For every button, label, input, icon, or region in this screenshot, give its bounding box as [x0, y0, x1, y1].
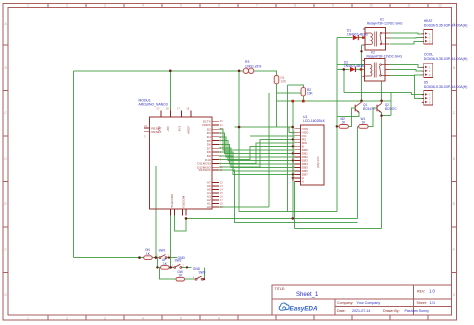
title block texts: [275, 287, 436, 313]
wire D11 to LCD RW: [219, 143, 295, 164]
svg-text:B: B: [453, 66, 456, 70]
svg-text:10K: 10K: [307, 92, 314, 96]
wire analog rail: [277, 100, 392, 102]
wire bottom return to Q2 emitter: [295, 228, 382, 230]
wire connector pin2 feed: [415, 75, 424, 99]
svg-text:AREF: AREF: [187, 126, 191, 134]
wire W1 left vertical: [357, 126, 358, 218]
svg-text:14: 14: [220, 188, 223, 192]
svg-text:8: 8: [294, 4, 296, 8]
svg-text:Company:: Company:: [337, 301, 353, 305]
svg-text:TITLE:: TITLE:: [275, 287, 286, 291]
resistor M2: [339, 117, 348, 129]
wire D5 to LCD DB3: [219, 141, 295, 161]
svg-text:DG636-5.35-03P-14-00A(H): DG636-5.35-03P-14-00A(H): [424, 23, 468, 27]
wire D13 down branch: [219, 170, 357, 223]
wire R2 bottom to rail: [302, 96, 304, 101]
resistor R1: [274, 76, 287, 84]
svg-text:1: 1: [429, 65, 431, 69]
svg-text:1: 1: [27, 4, 29, 8]
wire D12 to LCD RS: [219, 139, 295, 167]
wire K2 coil bottom to Q2 collector: [381, 81, 383, 101]
svg-text:Drawn By:: Drawn By:: [383, 309, 400, 313]
wire +5V top trunk horizontal: [73, 70, 243, 72]
svg-text:17: 17: [220, 198, 223, 202]
wire D3 to LCD DB1: [219, 133, 295, 153]
lcd U1 LCD-1602BLK: [292, 115, 326, 185]
resistor R2: [301, 88, 314, 96]
svg-text:18: 18: [186, 107, 189, 111]
connector HEAT DG636: [422, 19, 468, 44]
relay K1 RelayHT3F-12VDC-SHG: [363, 17, 403, 50]
connector U5 DG636 power: [422, 80, 468, 105]
wire W1 to Q2 base: [368, 108, 377, 126]
svg-text:ARDUINO_NANO3: ARDUINO_NANO3: [139, 103, 168, 107]
svg-text:12: 12: [438, 4, 442, 8]
svg-text:2: 2: [204, 275, 206, 279]
relay K2 RelayHT3F-12VDC-SHG: [363, 51, 403, 81]
svg-text:6: 6: [218, 316, 220, 320]
ground net flag row3 shared: [190, 266, 192, 268]
wire K1 coil return down to Q1 collector: [362, 45, 366, 101]
svg-text:+5V: +5V: [166, 125, 170, 132]
svg-text:7: 7: [256, 4, 258, 8]
wire K1 contact to HEAT pin2: [390, 37, 422, 39]
svg-text:13: 13: [220, 184, 223, 188]
svg-text:G: G: [4, 293, 7, 297]
wire Q2 emitter return: [382, 92, 392, 115]
svg-text:5: 5: [180, 4, 182, 8]
svg-text:VIN: VIN: [157, 126, 161, 131]
svg-text:D: D: [4, 157, 7, 161]
svg-text:10KΩ ±5%: 10KΩ ±5%: [245, 64, 261, 68]
wire connector pin1 feed: [412, 92, 424, 94]
resistor UP: [161, 258, 170, 269]
svg-text:31: 31: [220, 123, 223, 127]
svg-text:18: 18: [220, 202, 223, 206]
svg-text:[M] LCD: [M] LCD: [316, 156, 320, 168]
resistor W1: [359, 117, 368, 129]
wire D1 cathode to K1 coil pin: [359, 37, 366, 39]
module MODU1 ARDUINO_NANO3: [139, 99, 224, 216]
wire R1 bottom drop: [276, 84, 278, 127]
wire D9 to LCD DB7: [219, 156, 295, 175]
svg-text:1: 1: [157, 254, 159, 258]
svg-text:1: 1: [172, 263, 174, 267]
svg-text:G&COM: G&COM: [182, 195, 186, 207]
resistor ON: [144, 248, 153, 259]
svg-text:1: 1: [27, 316, 29, 320]
svg-text:2: 2: [429, 69, 431, 73]
transistor Q2 BC547C: [377, 101, 398, 113]
wire D8 to LCD DB6: [219, 152, 295, 171]
svg-text:Your Company: Your Company: [357, 301, 381, 305]
wire VO sense horizontal: [277, 92, 301, 94]
svg-text:SW3: SW3: [199, 271, 206, 275]
svg-text:17: 17: [177, 107, 180, 111]
transistor Q1 BC547C: [355, 101, 376, 113]
wire M2 left vertical: [337, 125, 339, 127]
wire LCD column vertical: [292, 101, 294, 218]
svg-text:DG636-5.35-03P-14-00A(H): DG636-5.35-03P-14-00A(H): [424, 85, 468, 89]
svg-text:EasyEDA: EasyEDA: [290, 306, 318, 313]
svg-text:LCD-1602BLK: LCD-1602BLK: [303, 119, 326, 123]
wire thermistor junction drop: [238, 71, 240, 212]
svg-text:D: D: [453, 157, 456, 161]
svg-text:16: 16: [220, 195, 223, 199]
svg-text:2021-07-14: 2021-07-14: [352, 309, 370, 313]
svg-text:4: 4: [142, 316, 144, 320]
svg-text:1K: 1K: [362, 121, 367, 125]
wire SW1 feed vertical: [155, 166, 157, 258]
wire R2 side drop: [287, 85, 289, 211]
wire LCD K drop: [294, 182, 296, 229]
wire LCD VO line: [250, 135, 295, 137]
wire R3 to R1: [254, 71, 277, 76]
wire row2 to row3 link: [160, 267, 177, 279]
frame tick marks left: [3, 45, 8, 273]
svg-text:12: 12: [220, 181, 223, 185]
svg-text:RelayHT3F-12VDC-SHG: RelayHT3F-12VDC-SHG: [367, 22, 403, 26]
wire D10 to LCD E: [219, 146, 295, 159]
wire Q1 emitter return: [337, 113, 359, 117]
thermistor R3: [243, 60, 261, 74]
svg-text:C: C: [453, 111, 456, 115]
svg-text:3V3: 3V3: [177, 126, 181, 132]
svg-text:1N4007-4B3M: 1N4007-4B3M: [344, 64, 365, 68]
svg-text:SW2: SW2: [175, 258, 182, 262]
svg-text:REV:: REV:: [417, 290, 425, 294]
wire +5V left trunk vertical: [72, 71, 74, 258]
svg-text:A: A: [4, 22, 7, 26]
diode D2 1N4007: [344, 60, 365, 72]
wire row1 to row2 link: [156, 258, 158, 268]
svg-text:D13SCK: D13SCK: [199, 168, 212, 172]
wire K2 contact to COOL pin2: [390, 70, 422, 72]
svg-text:1K: 1K: [342, 121, 347, 125]
svg-text:SW1: SW1: [159, 249, 166, 253]
svg-text:RelayHT3F-12VDC-SHG: RelayHT3F-12VDC-SHG: [367, 55, 403, 59]
svg-text:E: E: [4, 202, 7, 206]
wire D2 to LCD DB0: [219, 129, 295, 150]
svg-text:G: G: [453, 293, 456, 297]
svg-text:A0: A0: [207, 205, 211, 209]
svg-text:2: 2: [66, 316, 68, 320]
svg-text:30: 30: [220, 119, 223, 123]
wire W1 feed horizontal: [186, 217, 357, 219]
wire LCD VDD feed: [289, 127, 295, 132]
wire bottom pin1 jog: [174, 216, 186, 232]
wire D2 anode feed: [337, 68, 350, 70]
svg-text:C: C: [4, 111, 7, 115]
wire bottom trunk to ON resistor: [73, 257, 143, 259]
svg-text:F: F: [5, 248, 7, 252]
svg-text:U5: U5: [424, 80, 428, 84]
svg-text:2: 2: [182, 263, 184, 267]
svg-text:B: B: [4, 66, 7, 70]
svg-text:3: 3: [429, 100, 431, 104]
wire Q2 emitter ground drop: [381, 112, 383, 229]
resistor DW: [176, 270, 185, 281]
svg-text:9: 9: [332, 4, 334, 8]
wire D2 cathode to K2 coil pin: [356, 68, 365, 70]
svg-text:5: 5: [180, 316, 182, 320]
svg-text:4: 4: [142, 4, 144, 8]
svg-text:2: 2: [429, 36, 431, 40]
wire Arduino bottom pin stubs drop: [170, 216, 172, 268]
wire K2 contact to COOL pin3: [390, 74, 422, 77]
svg-text:Pasham Sunny: Pasham Sunny: [405, 309, 430, 313]
wire emitter rail branch: [343, 69, 345, 92]
svg-text:1: 1: [429, 93, 431, 97]
svg-text:F: F: [453, 248, 455, 252]
switch SW3: [193, 271, 206, 281]
wire R2 top feed: [288, 85, 304, 88]
frame tick marks right: [452, 45, 457, 273]
title block: [272, 285, 452, 315]
svg-text:BC547C: BC547C: [363, 107, 376, 111]
wire K2 coil top supply: [337, 64, 365, 66]
switch SW1: [157, 249, 170, 259]
svg-text:2: 2: [66, 4, 68, 8]
svg-text:10: 10: [369, 4, 373, 8]
frame tick marks top: [48, 4, 428, 8]
wire D6 to LCD DB4: [219, 144, 295, 164]
svg-text:29: 29: [144, 124, 147, 128]
svg-text:10K: 10K: [281, 80, 288, 84]
wire D7 to LCD DB5: [219, 148, 295, 167]
svg-text:3: 3: [144, 135, 146, 139]
EasyEDA logo: [279, 303, 318, 313]
wire row1 switch links: [152, 257, 177, 259]
wire K2 contact to COOL pin1: [390, 65, 422, 68]
svg-text:1: 1: [429, 32, 431, 36]
svg-text:28: 28: [166, 107, 169, 111]
svg-text:3: 3: [104, 4, 106, 8]
svg-text:11: 11: [407, 4, 411, 8]
svg-text:27: 27: [157, 107, 160, 111]
svg-text:Sheet_1: Sheet_1: [296, 292, 319, 298]
svg-text:1/1: 1/1: [430, 300, 436, 305]
wire K1 contact to HEAT pin1: [390, 32, 422, 35]
wire M2 feed horizontal: [239, 210, 337, 212]
svg-text:3: 3: [429, 73, 431, 77]
svg-text:HEAT: HEAT: [424, 19, 433, 23]
svg-text:Sheet:: Sheet:: [417, 301, 427, 305]
connector COOL DG636: [422, 53, 468, 78]
wire LCD pin taps: [293, 139, 295, 178]
diode D1 1N4007: [347, 29, 368, 41]
wire D1 anode feed: [337, 37, 353, 39]
wire thermistor junction line: [235, 126, 293, 128]
wire A0 to wiper: [219, 206, 269, 208]
svg-text:COOL: COOL: [424, 53, 434, 57]
wire row2 horizontal: [157, 266, 191, 268]
svg-text:6: 6: [218, 4, 220, 8]
svg-text:3: 3: [104, 316, 106, 320]
svg-text:K: K: [302, 180, 304, 184]
wire M2 to Q1 base: [348, 108, 355, 126]
wire D4 to LCD DB2: [219, 137, 295, 157]
svg-text:1: 1: [193, 275, 195, 279]
svg-text:5V&COM: 5V&COM: [170, 194, 174, 207]
wire +5V drop to Arduino 5V pin: [169, 71, 171, 111]
switch SW2: [172, 258, 185, 268]
wire pot wiper vertical: [268, 93, 270, 207]
svg-text:15: 15: [220, 191, 223, 195]
svg-text:2: 2: [429, 97, 431, 101]
wire row3 ground rise: [204, 267, 206, 279]
svg-text:3: 3: [429, 39, 431, 43]
svg-text:BC547C: BC547C: [385, 107, 398, 111]
wire main right vertical: [336, 38, 338, 212]
wire ground run to connector: [344, 91, 412, 93]
svg-text:DG636-5.35-03P-14-00A(H): DG636-5.35-03P-14-00A(H): [424, 57, 468, 61]
wire row3 horizontal: [184, 278, 204, 280]
svg-text:Date:: Date:: [337, 309, 346, 313]
frame tick marks bottom: [48, 315, 428, 320]
wire K1 contact to HEAT pin3: [390, 41, 422, 44]
svg-text:1.0: 1.0: [429, 289, 435, 294]
svg-text:E: E: [453, 202, 456, 206]
svg-text:16: 16: [292, 179, 295, 182]
